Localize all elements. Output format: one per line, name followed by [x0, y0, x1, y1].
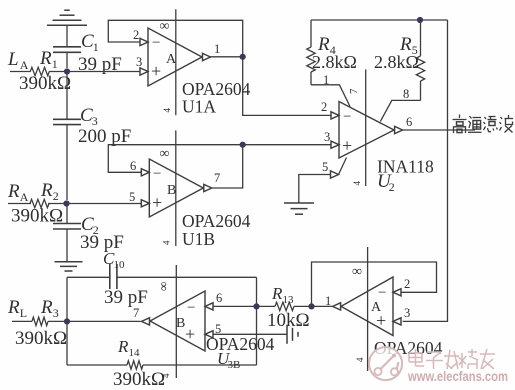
- svg-text:4: 4: [352, 181, 362, 186]
- node label RA: [7, 181, 29, 204]
- svg-text:1: 1: [323, 73, 329, 87]
- svg-text:A: A: [166, 52, 177, 67]
- pin 3 label U1A: [136, 55, 142, 69]
- pin 3 label U2: [324, 130, 330, 144]
- pin 1 label U1A: [214, 42, 220, 56]
- wire node D to INA118 pin3: [243, 144, 331, 146]
- capacitor C3: [53, 72, 81, 201]
- output arrow U2: [395, 126, 403, 133]
- svg-text:B: B: [176, 316, 185, 331]
- op-amp U1A letter A: [166, 52, 177, 67]
- wire rail right down to U4A pin3: [403, 20, 448, 321]
- wire U1A output: [211, 56, 243, 58]
- op-amp U4A power line: [367, 247, 369, 371]
- node F (RL node): [64, 318, 70, 324]
- pin 2 input arrow U2: [331, 112, 339, 119]
- wire U4A output to node: [312, 305, 333, 307]
- pin 2 label U2: [321, 100, 327, 114]
- svg-text:www.elecfans.com: www.elecfans.com: [407, 369, 508, 384]
- pin 5 label U3B: [215, 322, 221, 336]
- svg-text:2: 2: [133, 28, 139, 42]
- svg-text:∞: ∞: [160, 147, 170, 162]
- svg-text:390kΩ: 390kΩ: [113, 369, 165, 390]
- label U1B: [182, 229, 215, 249]
- wire rail up to pin6 node: [256, 306, 258, 365]
- svg-text:2: 2: [53, 189, 59, 203]
- svg-text:−: −: [378, 285, 386, 301]
- svg-text:200 pF: 200 pF: [78, 126, 131, 147]
- wire U4A feedback loop: [312, 262, 437, 306]
- pin 2 input arrow U1A: [140, 38, 148, 45]
- value 390k&#937; (R3): [15, 328, 67, 349]
- svg-text:+: +: [151, 61, 161, 81]
- svg-text:U1B: U1B: [182, 229, 215, 249]
- label R14: [117, 337, 140, 359]
- svg-text:R: R: [39, 48, 52, 69]
- in-amp U2 power line: [365, 70, 367, 187]
- svg-text:390kΩ: 390kΩ: [15, 328, 67, 349]
- op-amp U4A plus: [376, 311, 386, 331]
- svg-text:A: A: [371, 300, 382, 315]
- pin 2 label U1A: [133, 28, 139, 42]
- net label high-pass-filter output (Chinese): [453, 115, 514, 134]
- pin 5 input arrow U1B: [141, 200, 149, 207]
- wire R14 rail left: [67, 364, 127, 366]
- pin 6 label U2: [406, 115, 412, 129]
- op-amp U1B minus: [153, 166, 161, 182]
- ground G3 (U2 pin5): [284, 203, 314, 214]
- output arrow U1B: [204, 184, 212, 191]
- op-amp U1B infinity symbol: [160, 147, 170, 162]
- output arrow U4A: [333, 303, 341, 310]
- value 390k&#937; (R1): [19, 73, 71, 94]
- pin 6 label U1B: [130, 159, 136, 173]
- node B (U1A output): [240, 54, 246, 60]
- label R2: [40, 180, 59, 203]
- output arrow U3B: [142, 318, 150, 325]
- pin 7 label U2 (rotated): [348, 88, 360, 94]
- label U2: [377, 171, 395, 194]
- svg-text:3B: 3B: [228, 359, 241, 371]
- pin 2 label U4A: [404, 277, 410, 291]
- op-amp U1B letter B: [167, 183, 176, 198]
- node label LA: [7, 49, 29, 72]
- svg-text:5: 5: [322, 160, 328, 174]
- op-amp U3B letter B: [176, 316, 185, 331]
- label C3: [80, 105, 98, 128]
- resistor R14: [127, 361, 143, 369]
- svg-text:L: L: [20, 306, 27, 320]
- label R4: [317, 34, 336, 57]
- svg-text:−: −: [153, 166, 161, 182]
- op-amp U1A triangle: [148, 28, 202, 86]
- op-amp U4A letter A: [371, 300, 382, 315]
- svg-text:+: +: [185, 324, 195, 344]
- svg-text:R: R: [7, 181, 20, 202]
- pin 7 label U3B: [133, 306, 139, 320]
- value 10k&#937; (10kOhm R13): [267, 310, 310, 331]
- pin 3 input arrow U2: [331, 141, 339, 148]
- node H (R13 right / U4A out): [308, 303, 314, 309]
- ground G2 (below C2): [55, 262, 83, 271]
- value 2.8k&#937; (R4): [312, 52, 357, 72]
- node G (pin6 node): [253, 303, 259, 309]
- pin 6 input arrow U1B: [141, 169, 149, 176]
- pin 7 label U1B: [214, 171, 220, 185]
- svg-text:3: 3: [324, 130, 330, 144]
- op-amp U3B plus: [185, 324, 195, 344]
- pin 8 wire U2: [380, 100, 420, 121]
- svg-text:13: 13: [283, 294, 295, 306]
- svg-text:8: 8: [403, 87, 409, 101]
- pin 1 wire U2: [311, 85, 350, 107]
- capacitor C1: [53, 47, 81, 68]
- wire U3B pin6 to node: [213, 305, 257, 307]
- pin 5 label U1B: [129, 190, 135, 204]
- op-amp U1A power line pins 8/4: [175, 9, 177, 115]
- node A (LA node): [64, 68, 70, 74]
- value 200 pF (C3): [78, 126, 131, 147]
- wire U1A feedback (pin2-top-right): [108, 20, 242, 57]
- value 390k&#937; (R14): [113, 369, 165, 390]
- value 39 pF (C10): [104, 287, 148, 308]
- op-amp U1B power line: [175, 130, 177, 246]
- resistor R3: [32, 317, 48, 325]
- svg-text:1: 1: [52, 57, 58, 71]
- label R3: [40, 297, 59, 320]
- svg-text:R: R: [40, 297, 53, 318]
- output arrow U1A: [203, 53, 211, 60]
- svg-text:7: 7: [348, 88, 360, 94]
- node label RL: [7, 297, 27, 320]
- watermark text dianzifashaoyou: [409, 349, 495, 369]
- label OPA2604 (U3B): [206, 334, 275, 354]
- svg-text:3: 3: [404, 306, 410, 320]
- value 39 pF (C2): [80, 232, 124, 253]
- wire C10 right down to pin6 node: [256, 277, 258, 306]
- wire LA input: [10, 71, 31, 73]
- wire R2 to U1B pin5: [48, 203, 142, 205]
- pin 3 input arrow U1A: [140, 68, 148, 75]
- svg-text:∞: ∞: [352, 265, 362, 280]
- label R5: [399, 34, 418, 57]
- resistor R4: [307, 20, 315, 85]
- svg-text:4: 4: [162, 108, 172, 113]
- node C (RA node): [63, 200, 69, 206]
- pin 2 input arrow U4A: [393, 289, 401, 296]
- svg-text:+: +: [342, 136, 352, 156]
- svg-text:4: 4: [355, 357, 365, 362]
- svg-text:L: L: [7, 49, 19, 70]
- wire U3B pin5 to ground: [213, 333, 287, 335]
- node E (top rail): [417, 17, 423, 23]
- op-amp U4A minus: [378, 285, 386, 301]
- wire R14 rail right: [143, 364, 257, 366]
- svg-text:∞: ∞: [156, 282, 171, 291]
- pin 5 wire U2: [299, 158, 347, 203]
- value 390k&#937; (R2): [11, 206, 63, 227]
- wire top rail: [311, 19, 448, 21]
- op-amp U3B triangle: [150, 291, 205, 351]
- svg-text:R: R: [7, 297, 20, 318]
- wire U1B feedback (pin6-top): [108, 145, 242, 173]
- in-amp U2 plus: [342, 136, 352, 156]
- svg-text:B: B: [167, 183, 176, 198]
- watermark logo circle: [369, 347, 402, 380]
- resistor R5: [416, 20, 424, 100]
- svg-text:2: 2: [389, 180, 395, 194]
- pin 4 mark U1A: [162, 108, 172, 113]
- wire RL node up to C10: [66, 277, 68, 321]
- svg-text:3: 3: [136, 55, 142, 69]
- svg-text:1: 1: [214, 42, 220, 56]
- label C1: [81, 31, 99, 54]
- svg-text:A: A: [20, 190, 29, 204]
- ground G4 (rotated, U3B pin5): [287, 325, 298, 344]
- svg-text:2.8kΩ: 2.8kΩ: [312, 52, 357, 72]
- label R1: [39, 48, 58, 71]
- pin 8 label U2: [403, 87, 409, 101]
- value 39 pF (C1): [78, 54, 122, 75]
- in-amp U2 minus: [343, 109, 351, 125]
- svg-text:1: 1: [93, 40, 99, 54]
- capacitor C2: [53, 204, 81, 262]
- label OPA2604 (U1B): [182, 211, 251, 231]
- svg-text:10: 10: [114, 259, 126, 271]
- pin 4 mark U1B: [162, 240, 172, 245]
- svg-text:2: 2: [321, 100, 327, 114]
- svg-text:OPA2604: OPA2604: [182, 211, 251, 231]
- op-amp U3B infinity symbol (rotated): [156, 282, 171, 291]
- svg-text:7: 7: [214, 171, 220, 185]
- pin 6 label U3B: [216, 291, 222, 305]
- svg-text:3: 3: [53, 306, 59, 320]
- svg-text:6: 6: [216, 291, 222, 305]
- pin 3 input arrow U4A: [393, 318, 401, 325]
- svg-text:−: −: [187, 300, 195, 316]
- svg-text:4: 4: [162, 240, 172, 245]
- label U1A: [182, 97, 216, 117]
- node D (U1B output): [240, 142, 246, 148]
- ground G1 (inverted, above C1): [47, 10, 87, 47]
- pin 6 input arrow U3B: [205, 303, 213, 310]
- op-amp U1B plus: [152, 193, 162, 213]
- pin 3 label U4A: [404, 306, 410, 320]
- op-amp U3B power line: [175, 265, 177, 378]
- svg-text:7: 7: [133, 306, 139, 320]
- svg-text:A: A: [20, 58, 29, 72]
- svg-text:R: R: [117, 337, 129, 356]
- svg-text:5: 5: [129, 190, 135, 204]
- wire U1B output up to node: [212, 145, 243, 188]
- op-amp U3B minus: [187, 300, 195, 316]
- svg-text:390kΩ: 390kΩ: [19, 73, 71, 94]
- label OPA2604 (U4A): [374, 338, 443, 358]
- svg-text:39 pF: 39 pF: [80, 232, 124, 253]
- svg-text:+: +: [152, 193, 162, 213]
- svg-text:−: −: [343, 109, 351, 125]
- resistor R1: [30, 67, 49, 75]
- svg-text:R: R: [40, 180, 53, 201]
- op-amp U4A triangle: [341, 277, 393, 336]
- svg-text:∞: ∞: [160, 19, 170, 34]
- pin 4 mark U4A: [355, 357, 365, 362]
- value 2.8k&#937; (R5): [374, 52, 419, 72]
- wire R1 to U1A pin3: [49, 71, 141, 73]
- wire R3 to U3B output: [48, 320, 141, 322]
- op-amp U1A plus: [151, 61, 161, 81]
- label C2: [81, 214, 99, 237]
- pin 4 mark U3B: [161, 373, 171, 378]
- wire RL input: [12, 320, 32, 322]
- pin 1 label U4A: [325, 294, 331, 308]
- svg-text:6: 6: [406, 115, 412, 129]
- svg-text:R: R: [271, 284, 283, 303]
- svg-text:−: −: [152, 35, 160, 51]
- svg-text:39 pF: 39 pF: [104, 287, 148, 308]
- svg-text:U1A: U1A: [182, 97, 216, 117]
- op-amp U1A minus: [152, 35, 160, 51]
- svg-text:6: 6: [130, 159, 136, 173]
- label OPA2604 (U1A): [182, 79, 251, 99]
- op-amp U1B triangle: [149, 159, 203, 217]
- svg-text:4: 4: [161, 373, 171, 378]
- label C10: [103, 249, 125, 271]
- label U3B: [217, 349, 240, 371]
- resistor R2: [30, 199, 49, 207]
- wire U1A out down to INA118 pin2: [243, 57, 331, 116]
- pin 1 label U2: [323, 73, 329, 87]
- pin 4 mark U2: [352, 181, 362, 186]
- wire RA input: [8, 203, 31, 205]
- label R13: [271, 284, 294, 306]
- op-amp U4A infinity symbol: [352, 265, 362, 280]
- label INA118: [377, 157, 434, 177]
- svg-text:2: 2: [404, 277, 410, 291]
- svg-text:10kΩ: 10kΩ: [267, 310, 310, 331]
- capacitor C10: [67, 264, 257, 289]
- pin 5 input arrow U3B: [205, 331, 213, 338]
- wire U2 output: [403, 129, 475, 131]
- pin 5 label U2: [322, 160, 328, 174]
- wire RL node down to R14 rail: [66, 321, 68, 365]
- resistor R13: [257, 302, 312, 310]
- svg-text:14: 14: [129, 347, 141, 359]
- op-amp U1A infinity symbol: [160, 19, 170, 34]
- watermark url text: [407, 369, 508, 384]
- svg-text:2.8kΩ: 2.8kΩ: [374, 52, 419, 72]
- in-amp U2 INA118 triangle: [339, 102, 394, 159]
